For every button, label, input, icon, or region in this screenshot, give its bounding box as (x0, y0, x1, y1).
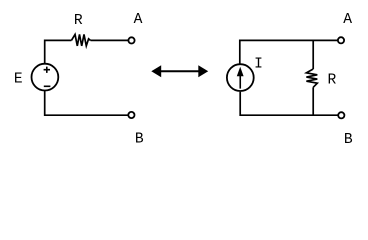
voltage source E (32, 64, 59, 91)
svg-text:A: A (134, 12, 143, 28)
equivalence double arrow (151, 65, 208, 77)
wire resistor R2 top lead (312, 40, 314, 69)
node A terminal circle (right) (338, 37, 344, 43)
minus sign of E (44, 85, 51, 87)
svg-text:B: B (344, 132, 353, 148)
svg-text:R: R (74, 13, 83, 29)
resistor R2 (306, 69, 317, 87)
wire left bottom (source bottom to terminal B) (45, 91, 129, 115)
resistor R1 (71, 34, 90, 46)
wire left top (source top to resistor) (45, 40, 72, 63)
node B terminal circle (right) (338, 112, 344, 118)
arrow inside current source I (237, 67, 244, 89)
svg-text:B: B (135, 132, 144, 148)
current source I (227, 64, 254, 91)
svg-text:A: A (343, 12, 352, 28)
plus sign of E (44, 67, 50, 73)
svg-text:R: R (328, 73, 337, 89)
wire right bottom (current source bottom to terminal B) (240, 92, 338, 116)
node A terminal circle (128, 37, 134, 43)
svg-text:I: I (254, 57, 263, 73)
svg-text:E: E (14, 72, 23, 88)
wire right top (current source top to terminal A) (240, 40, 338, 63)
node B terminal circle (128, 112, 134, 118)
wire resistor R2 bottom lead (312, 87, 314, 115)
wire R1 to terminal A (91, 39, 129, 41)
